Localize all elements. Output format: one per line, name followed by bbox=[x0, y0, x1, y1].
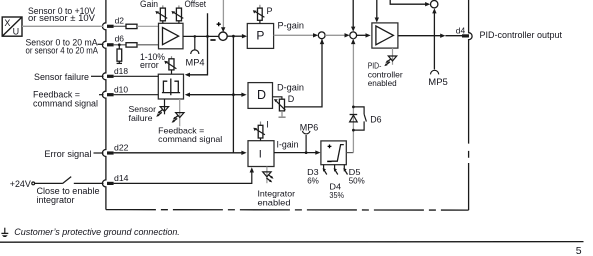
junction: amp output feedback tap bbox=[206, 35, 209, 38]
potentiometer P bbox=[253, 5, 265, 24]
wire: enable from d14 up into I block bbox=[114, 172, 252, 183]
pin d18 bbox=[107, 75, 114, 78]
svg-text:I: I bbox=[266, 120, 269, 130]
wire: d6 to input resistor bbox=[114, 44, 126, 46]
block I (integrator) bbox=[248, 141, 274, 167]
switch: close to enable integrator (+24V feed) bbox=[32, 177, 104, 185]
wire: error signal to P block bbox=[227, 35, 242, 37]
wire: enable into amplifier top bbox=[376, 0, 378, 19]
svg-text:I: I bbox=[259, 149, 262, 161]
svg-text:Sensor failure: Sensor failure bbox=[34, 72, 89, 82]
block P (proportional) bbox=[247, 24, 273, 49]
svg-text:or sensor ± 10V: or sensor ± 10V bbox=[28, 13, 95, 23]
svg-text:enabled: enabled bbox=[368, 78, 397, 88]
footer rule bbox=[0, 241, 584, 244]
node: summing junction S1 bbox=[219, 32, 227, 40]
svg-text:d10: d10 bbox=[114, 85, 129, 94]
svg-text:d6: d6 bbox=[115, 35, 125, 44]
potentiometer I bbox=[253, 122, 265, 141]
svg-text:d18: d18 bbox=[114, 67, 129, 76]
resistor: d6 input bbox=[126, 43, 137, 47]
node: loop feedback summing circle (top) bbox=[431, 0, 438, 7]
block: integrator limiter bbox=[321, 141, 346, 165]
svg-text:50%: 50% bbox=[349, 176, 365, 186]
wire: limiter output to vertical riser (gray) bbox=[346, 152, 353, 154]
svg-text:d4: d4 bbox=[456, 26, 466, 35]
pin d2 bbox=[107, 25, 114, 28]
wire: S2 to S3 (gray) bbox=[325, 34, 345, 36]
svg-text:D-gain: D-gain bbox=[277, 82, 304, 92]
wire: MP5 tap up into loop circle bbox=[433, 13, 435, 70]
wire: from top into S3 bbox=[352, 0, 354, 29]
pin d22 bbox=[107, 151, 114, 154]
wire: stub to pin d6 bbox=[98, 43, 104, 45]
pin d10 bbox=[107, 93, 114, 96]
svg-text:MP6: MP6 bbox=[300, 122, 319, 132]
svg-text:integrator: integrator bbox=[37, 195, 75, 205]
saturation curve inside limiter bbox=[332, 145, 344, 162]
LED: PID-controller enabled bbox=[392, 48, 394, 65]
svg-text:Customer’s protective ground c: Customer’s protective ground connection. bbox=[14, 227, 180, 237]
svg-text:error: error bbox=[140, 60, 159, 70]
wire: monitor error input from error bus bbox=[190, 94, 234, 96]
potentiometer D bbox=[273, 97, 282, 99]
svg-text:D6: D6 bbox=[370, 114, 381, 124]
svg-text:Error signal: Error signal bbox=[44, 149, 91, 159]
svg-text:Gain: Gain bbox=[140, 0, 158, 9]
pin d4 bbox=[462, 34, 469, 37]
wire: resistor to amplifier bbox=[137, 44, 159, 46]
wire: error bus down bbox=[232, 36, 234, 153]
switch bypass around D6 bbox=[353, 107, 366, 130]
ground: customer protective ground symbol bbox=[1, 228, 8, 234]
LED: feedback equals command bbox=[179, 99, 181, 126]
svg-text:35%: 35% bbox=[329, 190, 344, 200]
test point MP5 bbox=[431, 70, 439, 74]
transducer X/U box bbox=[2, 17, 22, 36]
LED: integrator enabled bbox=[266, 167, 268, 184]
pin d14 bbox=[107, 182, 114, 185]
pin d6 bbox=[107, 43, 114, 46]
svg-text:6%: 6% bbox=[307, 176, 319, 186]
wire: D path to S2 bbox=[285, 40, 322, 107]
svg-text:I-gain: I-gain bbox=[277, 140, 299, 150]
wire: from top corner into loop circle bbox=[390, 0, 426, 4]
resistor: burden resistor to ground below d6 line bbox=[117, 45, 122, 64]
svg-text:d2: d2 bbox=[115, 16, 124, 25]
svg-text:X: X bbox=[4, 18, 10, 28]
junction on d6 line bbox=[118, 43, 121, 46]
svg-text:P: P bbox=[256, 29, 264, 43]
card boundary: right edge with d4 socket and dash gap bbox=[469, 0, 473, 210]
svg-text:enabled: enabled bbox=[258, 197, 291, 207]
op-amp U1 input amplifier bbox=[159, 23, 184, 49]
wire: d2 to input resistor bbox=[114, 25, 126, 27]
wire: feedback tap down to monitor bbox=[190, 13, 208, 75]
svg-text:command signal: command signal bbox=[33, 99, 98, 109]
svg-text:Offset: Offset bbox=[185, 0, 207, 9]
wire: I output to limiter bbox=[274, 152, 316, 154]
op-amp U2 PID output amplifier bbox=[372, 23, 398, 48]
svg-text:D: D bbox=[257, 88, 266, 102]
wire: d10 to monitor bbox=[114, 94, 159, 96]
wire: stub to pin d10 bbox=[99, 94, 104, 96]
junction at MP4 tap bbox=[194, 35, 197, 38]
svg-text:d14: d14 bbox=[114, 174, 129, 183]
svg-text:+24V: +24V bbox=[10, 179, 31, 189]
wire: resistor to amplifier bbox=[137, 25, 159, 27]
node: summing junction S3 bbox=[350, 32, 357, 39]
svg-text:MP5: MP5 bbox=[428, 77, 448, 87]
block: sensor failure / feedback monitor bbox=[158, 74, 183, 99]
wire: P output to summing node S2 (gray) bbox=[274, 34, 314, 36]
test point MP6 bbox=[305, 135, 307, 153]
LED: sensor failure bbox=[164, 99, 166, 114]
block D (derivative) bbox=[248, 83, 273, 109]
junction: MP6 tap bbox=[305, 151, 308, 154]
limit taps D3 D4 D5 under limiter bbox=[324, 165, 348, 175]
card boundary: bottom chassis dash-dot line bbox=[106, 209, 469, 212]
diode D6 on riser bbox=[350, 115, 358, 122]
wire: stub to pin d22 bbox=[94, 152, 104, 154]
svg-text:failure: failure bbox=[129, 113, 153, 123]
wire: X/U output to pin d2 (gray) bbox=[22, 25, 104, 27]
svg-text:PID-controller output: PID-controller output bbox=[480, 30, 563, 40]
junction: error branch bbox=[232, 35, 235, 38]
svg-text:D: D bbox=[288, 94, 295, 104]
wire: command signal from top into summing node (gray) bbox=[222, 0, 224, 29]
wire: stub to pin d18 bbox=[91, 75, 104, 77]
svg-text:5: 5 bbox=[576, 245, 582, 256]
svg-text:U: U bbox=[13, 27, 20, 37]
svg-text:P: P bbox=[267, 6, 273, 16]
wire: error bus to D block bbox=[233, 94, 242, 96]
svg-text:or sensor 4 to 20 mA: or sensor 4 to 20 mA bbox=[26, 46, 99, 56]
wire: error signal d22 to I block bbox=[114, 152, 242, 154]
wire: amplifier output bbox=[183, 35, 219, 37]
wire: S3 to PID amplifier bbox=[357, 34, 366, 36]
test point MP4 bbox=[194, 36, 196, 49]
resistor: d2 input bbox=[126, 24, 137, 28]
svg-text:d22: d22 bbox=[114, 144, 129, 153]
svg-text:P-gain: P-gain bbox=[278, 20, 305, 30]
svg-text:command signal: command signal bbox=[158, 134, 222, 144]
node: summing junction S2 bbox=[318, 32, 325, 39]
wire: d18 to monitor bbox=[114, 75, 159, 77]
window comparator symbol inside monitor bbox=[162, 79, 180, 96]
wire: amplifier output to d4 bbox=[398, 35, 441, 37]
card boundary: left connector edge bbox=[102, 0, 105, 210]
svg-text:MP4: MP4 bbox=[186, 57, 205, 67]
